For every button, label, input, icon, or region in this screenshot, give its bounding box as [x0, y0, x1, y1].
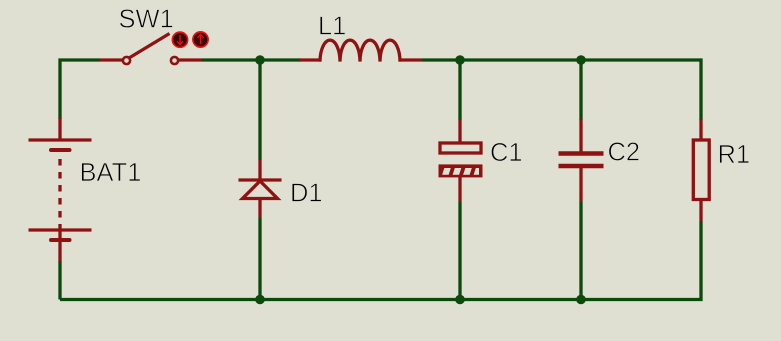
bottom cell short plate — [51, 238, 70, 242]
wire: C1 top stub — [458, 60, 461, 120]
terminal left — [123, 57, 130, 64]
wire: D1 top stub — [258, 60, 261, 160]
pin top — [579, 119, 582, 152]
pin bottom — [579, 167, 582, 202]
pin bottom — [458, 177, 461, 202]
battery BAT1 — [29, 118, 92, 262]
coil — [320, 40, 400, 62]
svg-text:BAT1: BAT1 — [80, 159, 142, 187]
anode triangle — [243, 181, 278, 199]
pin bottom — [58, 240, 61, 262]
capacitor C2 — [559, 119, 604, 202]
pin top — [58, 118, 61, 140]
button down — [172, 32, 187, 47]
pin right — [179, 58, 201, 61]
svg-text:SW1: SW1 — [119, 6, 174, 34]
wire: battery bottom to ground rail — [58, 261, 61, 300]
svg-text:C2: C2 — [608, 139, 641, 167]
node: bottom D1 junction — [255, 295, 265, 305]
plate bottom — [559, 164, 604, 168]
wire: switch to L1 — [201, 58, 300, 61]
diode D1 — [239, 160, 282, 218]
wire: L1 to R1 top corner — [422, 60, 701, 120]
wire: bottom rail — [60, 221, 701, 300]
svg-text:L1: L1 — [318, 12, 346, 40]
pin top — [699, 119, 702, 139]
node: top C1 junction — [455, 55, 465, 65]
pin right — [399, 58, 422, 61]
top cell short plate — [51, 148, 70, 152]
dashed link — [58, 159, 61, 228]
pin left — [299, 58, 321, 61]
bottom cell long plate — [29, 228, 92, 231]
svg-text:R1: R1 — [718, 141, 751, 169]
pin top — [458, 119, 461, 143]
node: bottom C1 junction — [455, 295, 465, 305]
node: top D1 junction — [255, 55, 265, 65]
node: bottom C2 junction — [576, 295, 586, 305]
cathode bar — [239, 178, 282, 181]
pin left — [100, 58, 122, 61]
wire: C1 bottom stub — [458, 202, 461, 300]
pin bottom — [699, 201, 702, 221]
pin bottom — [258, 199, 261, 218]
wire: battery top to switch — [60, 60, 100, 119]
resistor R1 — [693, 119, 709, 221]
inductor L1 — [299, 40, 422, 62]
svg-text:C1: C1 — [490, 139, 523, 167]
terminal right — [171, 57, 178, 64]
bottom cell lead through — [58, 228, 61, 240]
negative hatched plate — [439, 164, 483, 177]
top cell long plate — [29, 138, 92, 141]
pin top — [258, 160, 261, 180]
node: top C2 junction — [576, 55, 586, 65]
wire: C2 top stub — [579, 60, 582, 120]
button up — [193, 32, 208, 47]
svg-text:D1: D1 — [290, 180, 323, 208]
wire: D1 bottom stub — [258, 218, 261, 300]
switch SW1 — [100, 32, 208, 64]
positive plate — [440, 143, 481, 153]
wire: C2 bottom stub — [579, 202, 582, 300]
lever — [129, 34, 170, 59]
body — [693, 140, 709, 200]
plate top — [559, 151, 604, 155]
capacitor C1 (polarised) — [439, 119, 483, 202]
